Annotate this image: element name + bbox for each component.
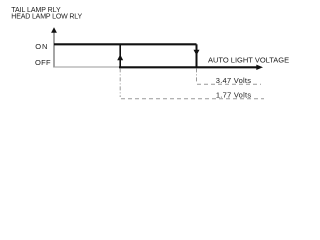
x-axis right arrowhead — [256, 65, 263, 70]
3.47V dash-dot vertical leader — [196, 68, 198, 82]
y-axis vertical line — [53, 30, 55, 68]
ON level thick line — [54, 43, 197, 45]
transition 3.47V down arrowhead — [194, 50, 200, 56]
transition 1.77V up arrowhead — [117, 55, 123, 61]
y-axis up arrowhead — [51, 27, 57, 32]
1.77V dash-dot vertical leader — [119, 68, 121, 97]
OFF level thin line — [54, 66, 120, 68]
svg-text:AUTO LIGHT VOLTAGE: AUTO LIGHT VOLTAGE — [208, 56, 289, 65]
1.77V dashed horizontal leader — [121, 98, 264, 100]
svg-text:ON: ON — [35, 42, 48, 51]
svg-text:1.77 Volts: 1.77 Volts — [216, 91, 251, 100]
3.47V dashed horizontal leader — [197, 83, 261, 85]
svg-text:HEAD LAMP LOW RLY: HEAD LAMP LOW RLY — [11, 13, 82, 20]
svg-text:OFF: OFF — [35, 58, 51, 67]
transition at 1.77V vertical line — [119, 44, 121, 67]
svg-text:3.47 Volts: 3.47 Volts — [216, 76, 251, 85]
OFF level thick line / x-axis — [119, 66, 257, 68]
transition at 3.47V vertical line — [196, 44, 198, 67]
